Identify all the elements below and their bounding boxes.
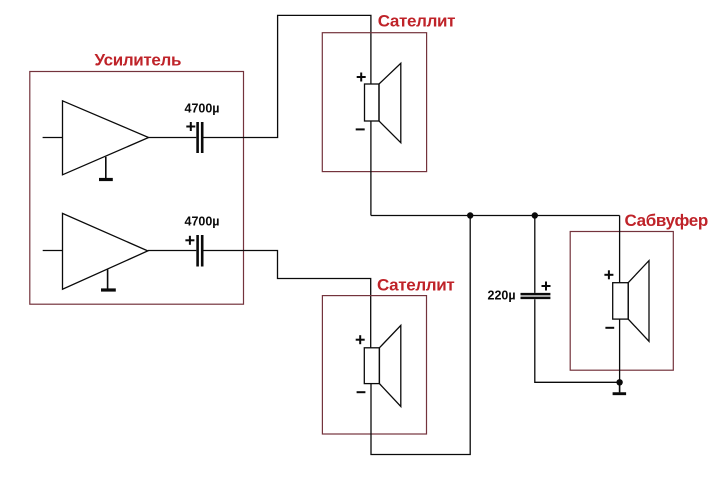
wire SP2 negative return (371, 216, 470, 455)
polarity + (C1) (186, 122, 195, 131)
subwoofer box (570, 232, 673, 371)
polarity + (C2) (185, 236, 194, 245)
speaker SP3 (subwoofer) (613, 261, 649, 342)
satellite 2 box (322, 296, 426, 434)
capacitor C3 220µ (521, 294, 551, 298)
wire bus to subwoofer positive (619, 216, 621, 283)
amplifier block box (30, 72, 244, 305)
capacitor C1 4700µ (198, 122, 203, 153)
polarity - (SP1) (356, 128, 365, 130)
wire C3 to ground node (535, 299, 620, 382)
ground (op-amp U2) (101, 270, 116, 291)
junction node A (467, 212, 473, 218)
svg-text:Сателлит: Сателлит (378, 12, 455, 31)
svg-text:220µ: 220µ (488, 289, 516, 303)
wire C2 to satellite 2 positive (204, 251, 371, 348)
ground (op-amp U1) (99, 157, 113, 180)
wire node B to capacitor C3 (534, 216, 536, 293)
polarity + (C3) (542, 282, 551, 291)
wire SP1 negative to bus (370, 121, 372, 216)
svg-text:4700µ: 4700µ (185, 214, 220, 228)
op-amp U2 (63, 213, 148, 289)
polarity + (SP3) (604, 270, 613, 279)
polarity - (SP2) (357, 391, 366, 393)
capacitor C2 4700µ (198, 235, 203, 267)
op-amp U1 (63, 101, 149, 175)
polarity + (SP2) (356, 335, 365, 344)
svg-text:Сателлит: Сателлит (377, 275, 454, 294)
svg-text:Усилитель: Усилитель (95, 51, 182, 70)
svg-text:Сабвуфер: Сабвуфер (625, 211, 708, 230)
wire U2 input stub (43, 250, 63, 252)
speaker SP2 (364, 325, 401, 406)
wire U2 output to C2 (148, 250, 197, 252)
wire C1 to satellite 1 positive (204, 15, 371, 137)
speaker SP1 (365, 63, 401, 142)
wire U1 input stub (43, 137, 63, 139)
polarity + (SP1) (357, 73, 366, 82)
wire U1 output to C1 (149, 137, 197, 139)
bus wire (common node) (371, 215, 620, 217)
svg-text:4700µ: 4700µ (185, 102, 220, 116)
junction node C (ground node) (616, 379, 622, 385)
wire subwoofer negative to ground node (619, 319, 621, 382)
ground (output common) (613, 382, 627, 393)
satellite 1 box (322, 33, 426, 172)
junction node B (532, 212, 538, 218)
polarity - (SP3) (605, 327, 614, 329)
